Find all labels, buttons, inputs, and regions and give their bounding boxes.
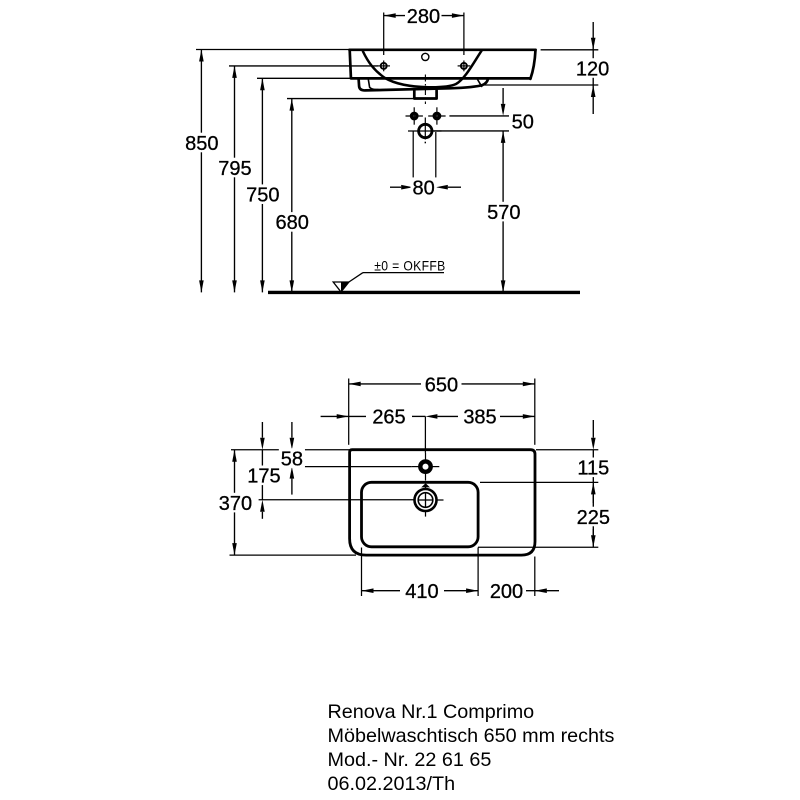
svg-text:58: 58: [281, 448, 303, 470]
svg-text:680: 680: [276, 212, 309, 234]
svg-text:265: 265: [372, 407, 405, 429]
svg-text:280: 280: [407, 6, 440, 28]
svg-text:50: 50: [512, 112, 534, 134]
svg-text:385: 385: [463, 407, 496, 429]
svg-text:570: 570: [487, 202, 520, 224]
svg-text:175: 175: [247, 466, 280, 488]
svg-text:370: 370: [219, 493, 252, 515]
svg-text:115: 115: [577, 458, 609, 480]
svg-text:850: 850: [185, 133, 218, 155]
svg-text:795: 795: [218, 158, 251, 180]
svg-text:410: 410: [405, 581, 438, 603]
svg-text:200: 200: [490, 581, 523, 603]
svg-text:750: 750: [246, 185, 279, 207]
svg-text:650: 650: [425, 374, 458, 396]
svg-text:±0 = OKFFB: ±0 = OKFFB: [374, 258, 445, 274]
svg-text:225: 225: [577, 507, 610, 529]
svg-text:80: 80: [412, 178, 434, 200]
svg-text:120: 120: [576, 58, 609, 80]
